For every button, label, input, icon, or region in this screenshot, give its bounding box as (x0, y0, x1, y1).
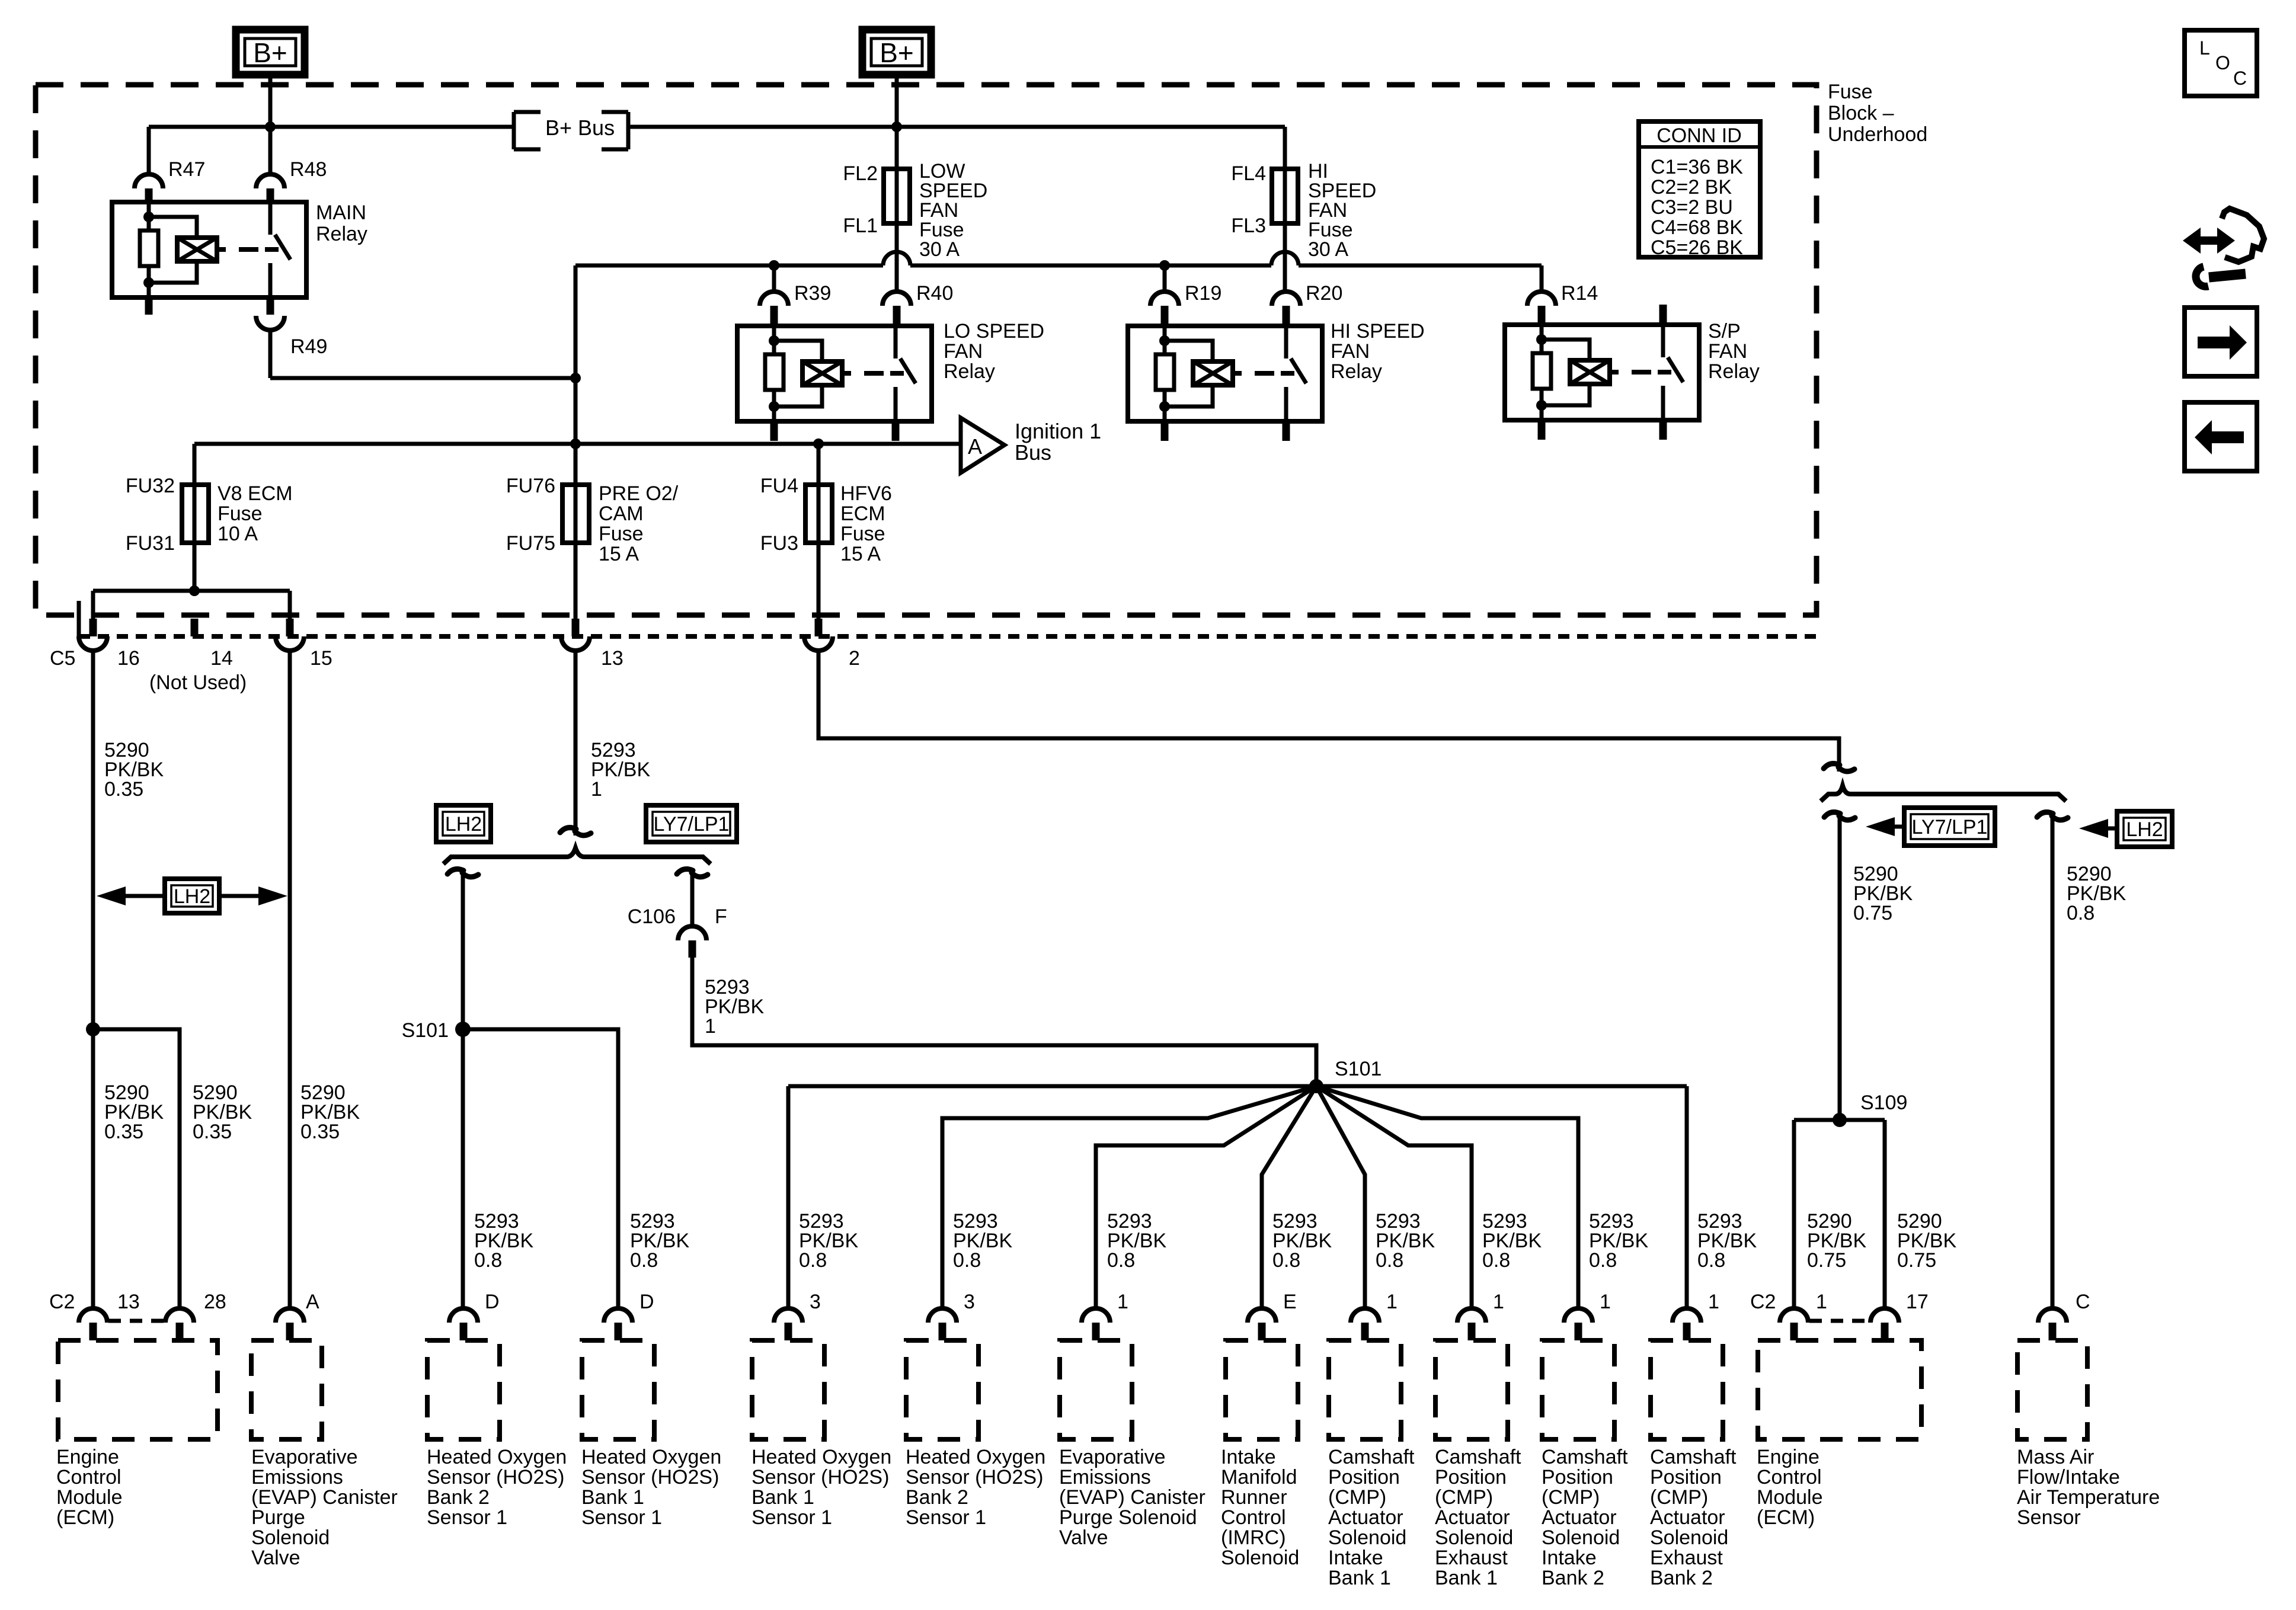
svg-text:Sensor 1: Sensor 1 (752, 1506, 832, 1529)
svg-text:Manifold: Manifold (1221, 1466, 1297, 1489)
fuse FU4/FU3 HFV6 ECM Fuse 15A (760, 444, 832, 619)
wire LY7 right down to S109 (1838, 816, 1842, 1120)
component box Mass Air Flow/Intake Air Temperature Sensor (2017, 1340, 2087, 1439)
label wire 5293 PK/BK 0.8 (630, 1210, 689, 1272)
svg-text:Sensor (HO2S): Sensor (HO2S) (906, 1466, 1043, 1489)
pin stubs LO SPEED relay bottom (774, 421, 896, 441)
svg-text:L: L (2199, 37, 2210, 59)
fuse block underhood dashed border (36, 85, 1817, 615)
connector ECM C2 pin 17 (1870, 1291, 1929, 1340)
wire R49 to relay feed column (270, 330, 581, 383)
label wire 5290 PK/BK 0.35 (pin28) (193, 1081, 252, 1143)
svg-text:(ECM): (ECM) (56, 1506, 114, 1529)
pin stubs HI SPEED relay bottom (1165, 421, 1286, 441)
connector R39 (760, 265, 831, 326)
svg-text:R40: R40 (916, 282, 953, 305)
label wire 5293 PK/BK 0.8 (799, 1210, 858, 1272)
svg-text:1: 1 (591, 778, 602, 801)
connector HO2S bank2 sensor1 pin 3 (928, 1291, 975, 1340)
connector C5 pin 14 not used (149, 619, 247, 694)
svg-text:Bus: Bus (1015, 440, 1051, 465)
svg-text:0.8: 0.8 (1697, 1249, 1725, 1272)
label Fuse Block - Underhood (1828, 81, 1927, 146)
svg-text:1: 1 (1816, 1291, 1827, 1313)
svg-text:Intake: Intake (1542, 1547, 1597, 1569)
svg-text:Actuator: Actuator (1542, 1506, 1617, 1529)
connector C106 pin F (628, 905, 727, 958)
svg-text:(EVAP) Canister: (EVAP) Canister (1059, 1486, 1205, 1509)
label HO2S Bank 2 Sensor 1 (3) (906, 1446, 1045, 1529)
svg-text:S101: S101 (402, 1019, 449, 1042)
svg-text:PRE O2/: PRE O2/ (599, 482, 679, 505)
label wire 5290 PK/BK 0.35 (top) (104, 739, 164, 801)
fuse FL2/FL1 LOW SPEED FAN Fuse 30A (843, 162, 910, 237)
svg-text:Actuator: Actuator (1650, 1506, 1725, 1529)
svg-text:Control: Control (1221, 1506, 1286, 1529)
label wire 5293 PK/BK 0.8 (1482, 1210, 1542, 1272)
svg-text:Actuator: Actuator (1435, 1506, 1510, 1529)
component box CMP Actuator Solenoid Exhaust Bank 1 (1435, 1340, 1508, 1439)
svg-text:S109: S109 (1860, 1092, 1907, 1114)
component box CMP Actuator Solenoid Intake Bank 1 (1329, 1340, 1401, 1439)
attention tag LH2 with arrows (left) (97, 879, 287, 913)
splice S109 (1833, 1092, 1907, 1127)
svg-text:1: 1 (1386, 1291, 1398, 1313)
connector ECM C2 pin 1 (1750, 1291, 1827, 1340)
splice S101 (engine harness) (1309, 1058, 1382, 1093)
svg-text:Solenoid: Solenoid (1221, 1547, 1299, 1569)
wire B+ left down to bus (268, 75, 273, 127)
svg-text:C4=68 BK: C4=68 BK (1651, 216, 1743, 239)
svg-text:A: A (968, 434, 982, 459)
svg-text:Intake: Intake (1221, 1446, 1276, 1468)
svg-text:15 A: 15 A (840, 543, 881, 565)
svg-text:Bank 2: Bank 2 (1542, 1567, 1604, 1589)
label IMRC Solenoid (1221, 1446, 1299, 1569)
svg-text:Bank 1: Bank 1 (1435, 1567, 1498, 1589)
wire break on 5290 right (1824, 764, 1854, 772)
label CMP Actuator Solenoid Intake Bank 1 (1328, 1446, 1415, 1589)
label S/P FAN Relay (1708, 320, 1760, 383)
svg-text:17: 17 (1906, 1291, 1929, 1313)
connector CMP intake bank1 pin 1 (1351, 1291, 1398, 1340)
svg-text:Block –: Block – (1828, 102, 1894, 124)
svg-text:C2: C2 (49, 1291, 75, 1313)
label Engine Control Module (ECM) right (1757, 1446, 1823, 1529)
label CMP Actuator Solenoid Exhaust Bank 2 (1650, 1446, 1737, 1589)
svg-text:Heated Oxygen: Heated Oxygen (752, 1446, 891, 1468)
label HO2S Bank 1 Sensor 1 (581, 1446, 721, 1529)
svg-text:15: 15 (310, 647, 332, 670)
label CMP Actuator Solenoid Intake Bank 2 (1542, 1446, 1628, 1589)
svg-text:Sensor (HO2S): Sensor (HO2S) (427, 1466, 564, 1489)
svg-text:(EVAP) Canister: (EVAP) Canister (251, 1486, 398, 1509)
svg-text:Fuse: Fuse (1828, 81, 1873, 103)
svg-text:B+ Bus: B+ Bus (545, 116, 615, 140)
svg-text:FU31: FU31 (126, 532, 175, 555)
svg-text:R48: R48 (290, 158, 327, 181)
label wire 5290 PK/BK 0.35 (pin13) (104, 1081, 164, 1143)
svg-text:0.35: 0.35 (300, 1121, 340, 1143)
connector HO2S bank1 sensor1 pin D (604, 1291, 654, 1340)
wire drop CMP intake bank2 pin 1 (1316, 1086, 1578, 1308)
connector C5 pin 15 (276, 619, 332, 670)
svg-text:F: F (715, 905, 727, 928)
svg-text:Position: Position (1328, 1466, 1400, 1489)
wire relay coil feed line (575, 252, 1542, 444)
label LO SPEED FAN Relay (944, 320, 1044, 383)
svg-text:Relay: Relay (316, 223, 367, 245)
svg-text:Position: Position (1435, 1466, 1507, 1489)
svg-text:28: 28 (204, 1291, 226, 1313)
wire drop EVAP pin 1 (1096, 1086, 1316, 1308)
svg-text:FU3: FU3 (760, 532, 798, 555)
svg-text:Fuse: Fuse (599, 523, 644, 545)
label Mass Air Flow/Intake Air Temperature Sensor (2017, 1446, 2160, 1529)
label HI SPEED FAN Relay (1331, 320, 1425, 383)
svg-text:R14: R14 (1561, 282, 1598, 305)
svg-text:(CMP): (CMP) (1542, 1486, 1600, 1509)
svg-text:C: C (2076, 1291, 2090, 1313)
label HI SPEED FAN Fuse 30 A (1308, 160, 1376, 261)
svg-text:Solenoid: Solenoid (1435, 1526, 1513, 1549)
wire B+ middle down (895, 75, 899, 127)
label wire 5290 PK/BK 0.8 (MAF) (2067, 863, 2126, 924)
svg-text:Relay: Relay (1708, 360, 1760, 383)
svg-text:FU75: FU75 (506, 532, 555, 555)
power symbol B+ (left) (236, 30, 305, 75)
svg-text:MAIN: MAIN (316, 201, 366, 224)
connector ECM C2 pin 13 (49, 1291, 140, 1340)
label wire 5293 PK/BK 0.8 (1272, 1210, 1332, 1272)
svg-text:13: 13 (117, 1291, 140, 1313)
svg-text:(Not Used): (Not Used) (149, 671, 247, 694)
svg-text:R39: R39 (794, 282, 831, 305)
svg-text:10 A: 10 A (218, 523, 258, 545)
fuse FL4/FL3 HI SPEED FAN Fuse 30A (1231, 162, 1298, 237)
svg-text:ECM: ECM (840, 502, 885, 525)
svg-text:Sensor 1: Sensor 1 (427, 1506, 507, 1529)
svg-text:Evaporative: Evaporative (251, 1446, 358, 1468)
svg-text:HI SPEED: HI SPEED (1331, 320, 1425, 343)
svg-text:3: 3 (964, 1291, 975, 1313)
svg-text:Valve: Valve (1059, 1526, 1108, 1549)
relay S/P FAN Relay (1505, 325, 1699, 420)
wire break LH2 right (2037, 812, 2068, 820)
component box HO2S Bank 1 Sensor 1 (582, 1340, 654, 1439)
label EVAP Canister Purge Solenoid Valve right (1059, 1446, 1205, 1549)
svg-text:0.8: 0.8 (1589, 1249, 1617, 1272)
svg-text:Engine: Engine (56, 1446, 119, 1468)
label wire 5290 PK/BK 0.75 (right top) (1853, 863, 1913, 924)
wire S101 branch to HO2S bank1 (463, 1029, 618, 1308)
component box CMP Actuator Solenoid Intake Bank 2 (1542, 1340, 1614, 1439)
connector R20 (1272, 282, 1342, 326)
svg-text:0.8: 0.8 (1107, 1249, 1135, 1272)
connector CMP exhaust bank2 pin 1 (1673, 1291, 1719, 1340)
connector EVAP purge pin 1 (1082, 1291, 1128, 1340)
svg-text:Sensor (HO2S): Sensor (HO2S) (752, 1466, 889, 1489)
connector R49 (256, 297, 327, 358)
svg-text:0.8: 0.8 (953, 1249, 981, 1272)
svg-text:0.8: 0.8 (799, 1249, 827, 1272)
svg-text:FL4: FL4 (1231, 162, 1266, 185)
label wire 5293 PK/BK 0.8 (1589, 1210, 1648, 1272)
svg-text:14: 14 (210, 647, 233, 670)
svg-text:Emissions: Emissions (251, 1466, 343, 1489)
connector CMP exhaust bank1 pin 1 (1457, 1291, 1504, 1340)
wire break on 5293 (560, 828, 591, 836)
fuse FU32/FU31 V8 ECM Fuse 10A (126, 475, 209, 591)
connector C5 pin 16 (79, 619, 140, 670)
svg-text:3: 3 (810, 1291, 821, 1313)
svg-text:Camshaft: Camshaft (1435, 1446, 1521, 1468)
svg-text:FAN: FAN (1708, 340, 1747, 363)
relay LO SPEED FAN Relay (737, 326, 932, 421)
connector CMP intake bank2 pin 1 (1564, 1291, 1611, 1340)
label Ignition 1 Bus (1015, 419, 1101, 465)
svg-text:LY7/LP1: LY7/LP1 (1912, 816, 1988, 838)
svg-text:Bank 2: Bank 2 (427, 1486, 490, 1509)
svg-text:1: 1 (1493, 1291, 1504, 1313)
svg-text:Camshaft: Camshaft (1650, 1446, 1737, 1468)
connector R47 (135, 158, 205, 202)
connector HO2S bank1 sensor1 pin 3 (774, 1291, 821, 1340)
svg-text:R20: R20 (1306, 282, 1342, 305)
node A triangle Ignition 1 Bus (961, 418, 1005, 473)
connector ECM C2 pin 28 (165, 1291, 226, 1340)
brace engine variant split (443, 848, 711, 864)
svg-text:1: 1 (1708, 1291, 1719, 1313)
svg-text:Solenoid: Solenoid (251, 1526, 330, 1549)
svg-text:Sensor 1: Sensor 1 (581, 1506, 662, 1529)
svg-text:(CMP): (CMP) (1650, 1486, 1708, 1509)
svg-text:1: 1 (1117, 1291, 1128, 1313)
connector R14 (1527, 282, 1598, 325)
label MAIN Relay (316, 201, 367, 245)
label EVAP Canister Purge Solenoid Valve left (251, 1446, 398, 1569)
svg-text:R47: R47 (168, 158, 205, 181)
svg-text:Bank 2: Bank 2 (906, 1486, 968, 1509)
dashed connector link C2 left (108, 1319, 164, 1323)
svg-text:C2=2 BK: C2=2 BK (1651, 176, 1732, 199)
icon arrow left box (2185, 402, 2257, 471)
attention tag LY7/LP1 (engine split right) (646, 805, 737, 842)
svg-text:CONN ID: CONN ID (1657, 124, 1742, 147)
svg-text:Valve: Valve (251, 1547, 300, 1569)
node B+ Bus tag (514, 112, 628, 149)
svg-text:0.35: 0.35 (104, 778, 143, 801)
svg-text:FU76: FU76 (506, 475, 555, 497)
component box HO2S Bank 2 Sensor 1 (427, 1340, 500, 1439)
svg-text:0.35: 0.35 (193, 1121, 232, 1143)
label V8 ECM Fuse 10 A (218, 482, 293, 545)
svg-text:Evaporative: Evaporative (1059, 1446, 1166, 1468)
svg-text:Solenoid: Solenoid (1328, 1526, 1406, 1549)
svg-text:30 A: 30 A (1308, 238, 1348, 261)
svg-text:C5=26 BK: C5=26 BK (1651, 236, 1743, 259)
svg-text:Bank 1: Bank 1 (1328, 1567, 1391, 1589)
svg-text:Engine: Engine (1757, 1446, 1819, 1468)
wire S101 bus bar (788, 1084, 1687, 1089)
svg-text:FU4: FU4 (760, 475, 798, 497)
svg-text:V8 ECM: V8 ECM (218, 482, 293, 505)
label wire 5293 PK/BK 0.8 (1107, 1210, 1166, 1272)
wire LH2 right down to MAF (2051, 816, 2055, 1308)
svg-text:C106: C106 (628, 905, 676, 928)
wire B+ bus right segment to FL2 and FL4 (628, 121, 1285, 169)
splice S101 (402, 1019, 471, 1042)
table CONN ID (1639, 121, 1760, 259)
svg-text:Underhood: Underhood (1828, 123, 1927, 146)
svg-text:Module: Module (1757, 1486, 1823, 1509)
svg-text:0.8: 0.8 (2067, 902, 2094, 924)
svg-text:0.8: 0.8 (1376, 1249, 1403, 1272)
icon LOC box (2185, 30, 2257, 96)
svg-text:Control: Control (1757, 1466, 1822, 1489)
wire 5290 from pin 2 across to right (818, 651, 1839, 772)
svg-text:2: 2 (849, 647, 860, 670)
brace engine variant split right (1821, 786, 2066, 801)
svg-text:0.8: 0.8 (1482, 1249, 1510, 1272)
relay MAIN Relay (112, 202, 306, 297)
svg-text:Heated Oxygen: Heated Oxygen (581, 1446, 721, 1468)
svg-text:FL1: FL1 (843, 215, 878, 237)
pin stub S/P relay switch top (1659, 305, 1667, 325)
power symbol B+ (middle) (862, 30, 931, 75)
svg-text:1: 1 (1600, 1291, 1611, 1313)
svg-text:FL3: FL3 (1231, 215, 1266, 237)
svg-text:FU32: FU32 (126, 475, 175, 497)
label HFV6 ECM Fuse 15 A (840, 482, 892, 565)
icon vehicle with arrow and wrench (2183, 209, 2264, 286)
label CMP Actuator Solenoid Exhaust Bank 1 (1435, 1446, 1521, 1589)
svg-text:Purge Solenoid: Purge Solenoid (1059, 1506, 1197, 1529)
svg-text:0.8: 0.8 (630, 1249, 658, 1272)
svg-text:Intake: Intake (1328, 1547, 1383, 1569)
label wire 5293 PK/BK 1 (C106) (705, 976, 764, 1038)
svg-text:Mass Air: Mass Air (2017, 1446, 2094, 1468)
wire FL2 feed down through fuse to R40 (895, 127, 899, 292)
svg-text:HFV6: HFV6 (840, 482, 892, 505)
svg-text:D: D (485, 1291, 500, 1313)
svg-text:S/P: S/P (1708, 320, 1741, 343)
label wire 5290 PK/BK 0.35 (pinA) (300, 1081, 360, 1143)
svg-text:Emissions: Emissions (1059, 1466, 1151, 1489)
svg-text:Bank 1: Bank 1 (581, 1486, 644, 1509)
component box HO2S Bank 1 Sensor 1 (3) (752, 1340, 824, 1439)
label Engine Control Module (ECM) left (56, 1446, 123, 1529)
svg-text:A: A (306, 1291, 319, 1313)
connector C5 pin 13 (561, 619, 623, 670)
connector HO2S bank2 sensor1 pin D (449, 1291, 500, 1340)
label wire 5293 PK/BK 1 (top) (591, 739, 650, 801)
svg-text:0.75: 0.75 (1807, 1249, 1846, 1272)
svg-text:Sensor (HO2S): Sensor (HO2S) (581, 1466, 719, 1489)
svg-text:Fuse: Fuse (218, 502, 263, 525)
svg-text:30 A: 30 A (919, 238, 960, 261)
svg-text:S101: S101 (1335, 1058, 1382, 1080)
attention tag LH2 (engine split left) (436, 805, 491, 842)
label HO2S Bank 2 Sensor 1 (427, 1446, 567, 1529)
wire drop CMP intake bank1 pin 1 (1316, 1086, 1365, 1308)
label wire 5290 PK/BK 0.75 (pin1) (1807, 1210, 1866, 1272)
svg-text:Exhaust: Exhaust (1435, 1547, 1508, 1569)
component box IMRC Solenoid (1226, 1340, 1298, 1439)
component box Engine Control Module right (1758, 1340, 1921, 1439)
svg-text:Heated Oxygen: Heated Oxygen (906, 1446, 1045, 1468)
label wire 5293 PK/BK 0.8 (474, 1210, 533, 1272)
wire FU31 output bar to pins 16/14/15 (93, 585, 290, 619)
connector IMRC pin E (1248, 1291, 1297, 1340)
label wire 5293 PK/BK 0.8 (953, 1210, 1012, 1272)
svg-text:Air Temperature: Air Temperature (2017, 1486, 2160, 1509)
svg-text:Relay: Relay (1331, 360, 1382, 383)
svg-text:Exhaust: Exhaust (1650, 1547, 1723, 1569)
svg-text:16: 16 (117, 647, 140, 670)
connector row C5 dotted line (50, 601, 1817, 670)
svg-text:R49: R49 (290, 335, 327, 358)
label wire 5290 PK/BK 0.75 (pin17) (1897, 1210, 1956, 1272)
svg-text:Relay: Relay (944, 360, 995, 383)
icon arrow right box (2185, 308, 2257, 376)
svg-text:(IMRC): (IMRC) (1221, 1526, 1286, 1549)
svg-text:O: O (2215, 52, 2230, 73)
connector R48 (256, 127, 327, 202)
attention tag LY7/LP1 with arrow (right) (1866, 808, 1995, 846)
wire break LY7 side (677, 869, 708, 877)
wire 5290 from pin 15 down to EVAP pin A (288, 651, 292, 1308)
wire FL4 feed down through fuse to R20 (1283, 169, 1287, 292)
wire ignition 1 bus line (194, 438, 961, 485)
svg-text:Control: Control (56, 1466, 121, 1489)
svg-text:Sensor: Sensor (2017, 1506, 2081, 1529)
svg-text:LH2: LH2 (445, 813, 482, 836)
wire drop IMRC pin E (1262, 1086, 1316, 1308)
svg-text:Module: Module (56, 1486, 123, 1509)
label PRE O2/CAM Fuse 15 A (599, 482, 679, 565)
svg-text:LH2: LH2 (2126, 818, 2163, 841)
svg-text:0.35: 0.35 (104, 1121, 143, 1143)
svg-text:C2: C2 (1750, 1291, 1776, 1313)
component box EVAP Canister Purge Solenoid Valve right (1060, 1340, 1132, 1439)
svg-text:Ignition 1: Ignition 1 (1015, 419, 1101, 443)
svg-text:FAN: FAN (1331, 340, 1370, 363)
label LOW SPEED FAN Fuse 30 A (919, 160, 987, 261)
svg-text:(CMP): (CMP) (1435, 1486, 1493, 1509)
connector R40 (882, 282, 953, 326)
wire drop CMP exhaust bank1 pin 1 (1316, 1086, 1472, 1308)
wire C106 to S101 splice 2 (692, 958, 1316, 1086)
svg-text:1: 1 (705, 1015, 716, 1038)
svg-text:(CMP): (CMP) (1328, 1486, 1386, 1509)
svg-text:LH2: LH2 (174, 885, 210, 908)
fuse FU76/FU75 PRE O2/CAM Fuse 15A (506, 444, 589, 619)
wire break LH2 side (447, 869, 478, 877)
wire drop HO2S B1S1 pin 3 (786, 1086, 791, 1308)
wire S109 to ECM pins 1 and 17 (1794, 1120, 1885, 1308)
svg-text:Purge: Purge (251, 1506, 305, 1529)
svg-text:Runner: Runner (1221, 1486, 1287, 1509)
svg-text:(ECM): (ECM) (1757, 1506, 1815, 1529)
svg-text:LY7/LP1: LY7/LP1 (654, 813, 730, 836)
svg-text:Bank 2: Bank 2 (1650, 1567, 1713, 1589)
svg-text:13: 13 (601, 647, 623, 670)
svg-text:Bank 1: Bank 1 (752, 1486, 814, 1509)
wire break LY7 right (1824, 812, 1855, 820)
label wire 5293 PK/BK 0.8 (1376, 1210, 1435, 1272)
wire 5293 from pin 13 down to engine split (574, 651, 578, 836)
